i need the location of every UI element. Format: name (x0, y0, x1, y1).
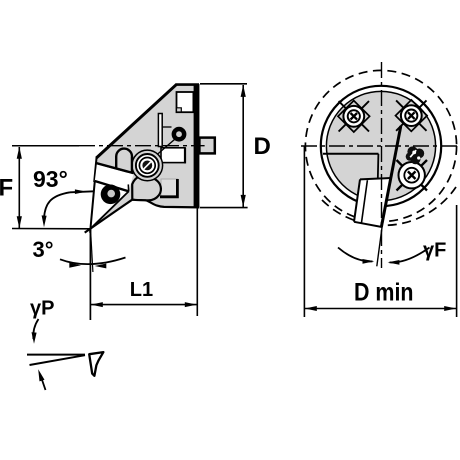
screw T1 diamond (338, 101, 370, 132)
D dimension line (242, 85, 244, 207)
D min right extension (456, 205, 458, 317)
pocket shelf line (97, 163, 134, 173)
serration slot (158, 114, 162, 147)
drive stud (199, 138, 214, 154)
svg-text:D: D (254, 133, 271, 160)
screw S2 (172, 127, 187, 142)
F bottom extension line (12, 228, 91, 230)
93 deg arrow right (75, 189, 87, 194)
svg-text:L1: L1 (130, 279, 153, 301)
body top edge (176, 83, 200, 86)
insert top edge (95, 181, 129, 191)
F arrow up (17, 147, 22, 159)
screw S1 counterbore (132, 150, 163, 181)
rake extension line (377, 226, 382, 266)
screw T3 (399, 162, 425, 188)
rake face line (381, 126, 400, 227)
gamma F arc left (338, 248, 373, 262)
screw T2 diamond (396, 100, 428, 131)
cutting sweep dashed arc (322, 187, 456, 225)
serration step line (162, 126, 171, 128)
head face disc (326, 91, 435, 200)
93 deg leader to insert (70, 191, 94, 192)
L1 arrow left (91, 302, 103, 307)
D min dashed circle (305, 70, 456, 221)
serration step square thick edges (160, 179, 177, 197)
L1 right extension line (196, 209, 198, 317)
93 deg arrow down (42, 215, 47, 227)
clamp boss right edge over screw (131, 157, 133, 173)
3 deg arrow left (95, 264, 107, 269)
gamma P rake line (30, 355, 86, 365)
D min arrow right (444, 306, 456, 311)
insert front left edge (354, 179, 360, 221)
clamp screw blob (407, 146, 417, 156)
serration notch 2 (161, 148, 185, 163)
F dimension line (18, 147, 20, 228)
body slanted top-left edge (96, 84, 176, 158)
clamp finger front edge (127, 184, 129, 191)
screw T1 (343, 106, 364, 127)
body back face bar (194, 84, 200, 208)
gamma P horizontal line (27, 354, 85, 356)
insert front face fill (354, 178, 391, 227)
L1 dimension line (91, 304, 197, 306)
serration step square (161, 179, 177, 197)
F arrow down (17, 216, 22, 228)
clearance vertical extension (89, 229, 91, 320)
screw S1 (136, 154, 159, 177)
D arrow up (241, 85, 246, 97)
clamp boss U (116, 149, 132, 173)
svg-text:D min: D min (354, 279, 414, 307)
front vertical centerline (381, 62, 383, 268)
insert front double line (362, 180, 368, 222)
gamma F arc right (390, 248, 430, 263)
insert front bottom edge (354, 222, 382, 227)
screw T2 (401, 105, 422, 126)
pocket right edge (377, 154, 380, 179)
pocket white wedge (95, 165, 134, 192)
screw T2 cross (396, 100, 426, 130)
D arrow down (241, 195, 246, 207)
insert hole (101, 185, 121, 205)
chamfer line from S2 (153, 140, 175, 159)
D min arrow left (305, 306, 317, 311)
head outer circle (321, 86, 441, 206)
gamma P rake arrow (40, 374, 46, 390)
D min dimension line (305, 308, 456, 310)
pocket chord line (323, 153, 379, 155)
D min left extension (303, 146, 305, 317)
L1 arrow right (185, 302, 197, 307)
svg-text:F: F (0, 175, 13, 202)
3 deg arrow right (69, 263, 81, 268)
3 deg arc (60, 258, 126, 265)
insert left edge (90, 181, 95, 233)
D bottom extension line (200, 207, 248, 209)
screw T1 cross (339, 101, 369, 131)
serration notch 1 step (177, 108, 182, 112)
serration notch 2 right edge (184, 148, 186, 164)
centerline left view (12, 145, 79, 147)
gamma P insert tip section (89, 352, 103, 376)
svg-text:γP: γP (30, 298, 54, 320)
front horizontal centerline (301, 145, 458, 147)
insert DNMG side view (91, 181, 129, 229)
93 deg arc (44, 192, 70, 218)
clamp blob (132, 176, 161, 200)
insert bottom edge (91, 191, 129, 228)
screw T3 cross (397, 160, 428, 191)
svg-text:93°: 93° (33, 166, 68, 192)
D top extension line (200, 83, 247, 85)
body bottom edge (85, 199, 200, 232)
gamma P leader arrow (33, 319, 38, 339)
serration notch 1 (177, 92, 194, 112)
clearance 3 deg line (91, 229, 93, 272)
body left edge (94, 157, 96, 182)
svg-text:3°: 3° (33, 237, 54, 262)
head body silhouette (91, 84, 200, 229)
insert front top edge (360, 178, 391, 179)
